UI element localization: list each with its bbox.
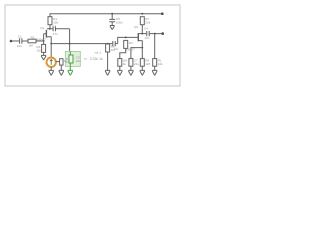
svg-text:22k: 22k	[145, 20, 150, 24]
svg-text:2N5457: 2N5457	[36, 37, 46, 41]
node C2 junction	[69, 43, 71, 45]
svg-text:Q2: Q2	[134, 25, 138, 29]
wire source2 to R9	[141, 48, 143, 59]
ground under R9	[140, 70, 145, 75]
ground under R3	[41, 55, 46, 60]
wire Q2 drain up	[141, 25, 143, 34]
node input terminal	[10, 40, 13, 43]
ground under R5	[105, 70, 110, 75]
node gate junction	[43, 40, 45, 42]
node source2 junction	[141, 47, 143, 49]
svg-text:1M: 1M	[36, 49, 41, 53]
wire Q2 source down	[141, 41, 143, 48]
svg-text:22u: 22u	[76, 59, 81, 63]
svg-text:C1: C1	[18, 34, 22, 38]
resistor R6 upper	[124, 40, 128, 48]
svg-text:C2: C2	[52, 24, 56, 28]
wire gate node down	[43, 41, 45, 44]
wire R8 to ground	[130, 66, 132, 70]
capacitor C1	[20, 38, 22, 43]
wire input to C1	[11, 40, 19, 42]
resistor R3 bias	[42, 44, 46, 52]
svg-text:22u: 22u	[134, 62, 139, 66]
ground under R8	[128, 70, 133, 75]
wire Q1 source drop	[50, 37, 52, 44]
capacitor C6 out	[142, 31, 162, 36]
svg-text:0.22u 1k: 0.22u 1k	[90, 57, 103, 61]
svg-text:100n: 100n	[116, 21, 123, 25]
resistor R2 series	[28, 39, 36, 43]
wire gate drop	[43, 34, 45, 41]
ground under RL	[152, 70, 157, 75]
node drain junction	[49, 28, 51, 30]
wire source node to I1	[50, 44, 52, 58]
wire R3 to ground	[43, 52, 45, 55]
ground under C3	[68, 70, 73, 75]
resistor RL	[153, 59, 157, 67]
node source junction	[50, 43, 52, 45]
capacitor C3 selected	[69, 51, 71, 55]
svg-text:1M: 1M	[29, 44, 34, 48]
svg-text:vol_1: vol_1	[95, 51, 102, 55]
wire R6 jog	[120, 48, 126, 58]
capacitor C5 decouple	[111, 13, 113, 15]
node out terminal	[161, 32, 164, 35]
node R5 top junction	[107, 43, 109, 45]
svg-text:10u: 10u	[17, 44, 22, 48]
ground under R4	[59, 70, 64, 75]
wire C2 drop	[69, 29, 71, 44]
wire bypass branch	[131, 48, 142, 59]
transistor Q2	[137, 33, 139, 41]
node V+ end dot	[161, 12, 164, 15]
wire I1 to ground	[50, 67, 52, 71]
svg-text:1k5: 1k5	[145, 62, 150, 66]
wire R to gate node	[36, 40, 44, 42]
svg-text:Q1: Q1	[40, 26, 44, 30]
svg-text:10u: 10u	[114, 47, 119, 51]
wire to C3 highlighted	[69, 44, 71, 52]
ground under R6	[117, 70, 122, 75]
svg-text:10u: 10u	[145, 36, 150, 40]
resistor R8	[129, 59, 133, 67]
node R7 top junction	[141, 13, 143, 15]
resistor R6 lower	[118, 59, 122, 67]
wire R6 to ground	[119, 66, 121, 70]
wire R1 to Q1 drain	[47, 25, 50, 29]
capacitor C2	[50, 26, 70, 31]
svg-text:1M: 1M	[129, 41, 134, 45]
ground under C5	[110, 26, 115, 30]
svg-text:R2: R2	[31, 35, 35, 39]
wire R9 to ground	[141, 66, 143, 70]
svg-text:2N5457: 2N5457	[125, 48, 135, 52]
svg-text:1k: 1k	[66, 60, 70, 64]
current source I1	[47, 58, 56, 67]
wire out to RL	[154, 34, 156, 59]
transistor Q1	[45, 30, 47, 38]
svg-text:1k: 1k	[123, 62, 127, 66]
wire R5 to ground	[107, 52, 109, 70]
wire C4 out riser	[118, 37, 138, 43]
wire RL to ground	[154, 66, 156, 70]
wire I1 to R4	[56, 61, 60, 63]
resistor R4	[60, 59, 63, 65]
wire R4 to ground	[60, 65, 62, 70]
highlight box C3	[65, 51, 80, 66]
capacitor C4 series	[113, 41, 118, 46]
wire V+ rail	[50, 14, 163, 17]
wire C1 to R series	[22, 40, 28, 42]
node drain2 junction	[141, 33, 143, 35]
svg-text:10k: 10k	[158, 62, 163, 66]
ground under I1	[49, 70, 54, 75]
resistor R5	[106, 44, 110, 52]
node gate2 junction	[125, 37, 127, 39]
resistor R1	[48, 17, 52, 25]
svg-text:47n: 47n	[53, 32, 58, 36]
wire source rail	[51, 43, 112, 45]
svg-text:C4: C4	[144, 26, 148, 30]
resistor R9	[140, 59, 144, 67]
resistor R7	[140, 17, 144, 25]
node out junction	[154, 33, 156, 35]
